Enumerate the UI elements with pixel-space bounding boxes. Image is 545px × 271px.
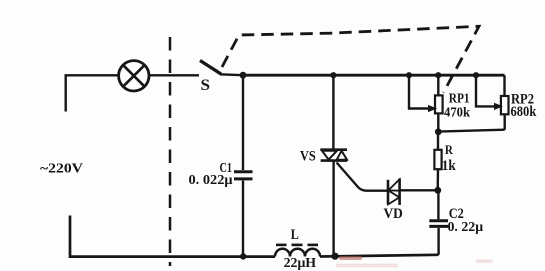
wire: left AC top stub [66, 75, 119, 111]
svg-text:680k: 680k [511, 104, 538, 120]
dashed boundary line (wall box) [169, 37, 172, 266]
svg-text:RP1: RP1 [449, 91, 470, 106]
diac VD [388, 179, 400, 205]
wire: lamp to switch [149, 74, 199, 76]
inductor L [275, 245, 320, 257]
capacitor C1 [234, 75, 253, 256]
dashed mechanical link S to RP1 [222, 26, 479, 92]
wire: bottom bus right [320, 255, 439, 257]
wire: switch contact to node [220, 73, 243, 76]
wire: RP1 bottom to RP2 bottom [438, 130, 504, 132]
wire: VD to node [400, 189, 438, 191]
svg-text:0. 22μ: 0. 22μ [448, 219, 484, 234]
svg-text:0. 022μ: 0. 022μ [189, 172, 233, 187]
svg-text:1k: 1k [442, 158, 457, 174]
svg-text:L: L [291, 227, 299, 243]
svg-text:VS: VS [300, 149, 316, 165]
triac VS [320, 75, 347, 256]
svg-text:VD: VD [384, 206, 403, 222]
svg-text:~220V: ~220V [40, 161, 83, 176]
wire: VS gate to VD [337, 163, 388, 191]
switch S lever [200, 61, 221, 75]
resistor R [434, 132, 441, 191]
svg-text:22μH: 22μH [284, 255, 317, 270]
svg-text:R: R [445, 143, 454, 157]
red watermark streaks [336, 256, 493, 267]
wire: top bus [243, 74, 505, 77]
svg-text:470k: 470k [444, 105, 470, 120]
wire: left AC bottom stub and bottom bus [70, 216, 275, 257]
lamp EL [119, 61, 149, 91]
capacitor C2 [429, 190, 448, 255]
potentiometer RP1 [409, 75, 443, 132]
svg-text:S: S [201, 77, 211, 94]
potentiometer RP2 [476, 75, 509, 130]
